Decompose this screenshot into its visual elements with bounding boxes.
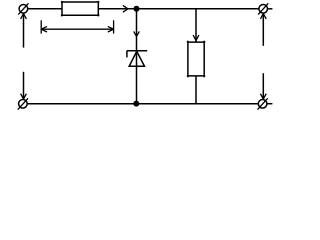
input voltage arrow upper (points up into X1) [21,14,27,48]
current arrow I3 (into resistor R2) [193,35,199,41]
wire (top rail, X1 to node A and on to X2) [28,8,259,10]
input voltage arrow lower (points down into X3) [21,72,27,99]
resistor R1 (series box) [61,1,100,17]
node B (junction dot, bottom) [133,101,139,107]
terminal X2 (top-right, circle with slash) [258,3,268,14]
wire (R2 branch, top rail to box) [195,9,197,42]
terminal X3 (bottom-left, circle with slash) [18,98,28,109]
output voltage arrow upper (points up into X2) [260,14,266,46]
wire (stub right of X4) [267,103,273,105]
terminal X4 (bottom-right, circle with slash) [258,98,268,109]
current arrow I2 (down the zener branch) [134,31,140,36]
current arrow I1 (on top rail before node A) [123,5,128,12]
wire (stub right of X2) [268,8,273,10]
zener diode V1 (cathode bar with hook, anode triangle) [127,51,147,67]
terminal X1 (top-left, circle with slash) [18,3,28,14]
resistor R2 (load, vertical box) [187,41,206,78]
output voltage arrow lower (points down into X4) [260,73,266,99]
wire (bottom rail, X3 to node B and on to X4) [27,103,258,105]
wire (zener branch, node A down to node B) [136,9,138,104]
dimension arrow (span under resistor R1, tick to tick) [41,20,113,33]
node A (junction dot, top) [134,6,140,12]
wire (R2 branch, box to bottom rail) [195,76,197,104]
